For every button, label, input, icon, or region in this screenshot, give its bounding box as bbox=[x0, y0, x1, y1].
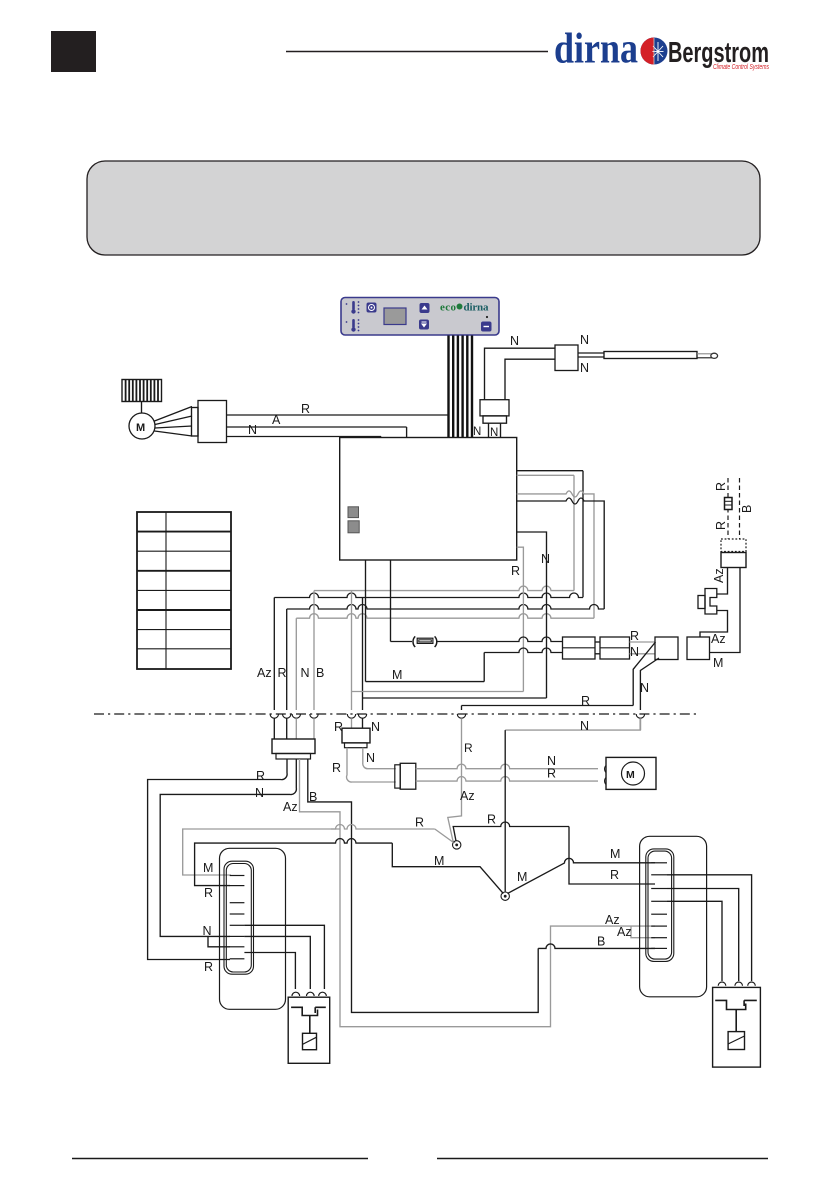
left terminal box outer bbox=[220, 848, 286, 1009]
motor connector X1 bbox=[192, 408, 199, 437]
wire R blower bbox=[227, 414, 449, 416]
svg-text:R: R bbox=[332, 761, 341, 775]
svg-text:B: B bbox=[309, 790, 317, 804]
probe tip bbox=[697, 353, 712, 355]
svg-text:R: R bbox=[630, 629, 639, 643]
harness row r2 bbox=[274, 593, 583, 597]
N wire below chassis (grey) bbox=[505, 718, 640, 730]
svg-text:R: R bbox=[547, 767, 556, 781]
header rule bbox=[286, 51, 548, 53]
svg-text:dirna: dirna bbox=[554, 26, 638, 73]
vertical R to connector bbox=[286, 609, 288, 710]
relay RL2 contacts symbol bbox=[715, 1000, 757, 1031]
CB output R (grey) bbox=[347, 748, 396, 782]
svg-text:B: B bbox=[597, 935, 605, 949]
harness row r3 bbox=[287, 605, 605, 610]
wire from pressure switch to junction bbox=[700, 611, 728, 638]
M wire from C2 to right box bbox=[508, 863, 565, 894]
right terminal box outer bbox=[640, 836, 707, 997]
relay RL1 contacts symbol bbox=[291, 1007, 326, 1033]
junction box J1 bbox=[655, 637, 678, 660]
footer rule left bbox=[72, 1158, 368, 1160]
svg-text:N: N bbox=[580, 361, 589, 375]
svg-text:Az: Az bbox=[712, 568, 726, 583]
RL2 terminal arcs bbox=[718, 982, 755, 986]
ECU output wire w4 with squiggle bbox=[517, 498, 605, 609]
ECU control unit box bbox=[340, 438, 517, 561]
svg-text:N: N bbox=[203, 924, 212, 938]
relay/connector solid box bbox=[721, 553, 746, 568]
wire M from solid box down to junction box bbox=[710, 568, 741, 653]
svg-text:N: N bbox=[580, 719, 589, 733]
thermostat connector pins bbox=[488, 423, 490, 437]
svg-text:R: R bbox=[415, 816, 424, 830]
wires to blower motor 2 (grey) bbox=[416, 764, 598, 769]
R wire to left below chassis bbox=[462, 705, 634, 707]
left box terminals bbox=[230, 876, 245, 959]
harness row r4 (grey) bbox=[296, 614, 594, 619]
B wire into right box with hump bbox=[538, 944, 655, 948]
svg-text:B: B bbox=[740, 505, 754, 513]
ECU grey pad 1 bbox=[348, 507, 359, 518]
relay K2 double box bbox=[600, 637, 630, 659]
ECU output wire w3 with squiggle bbox=[517, 491, 594, 618]
ECU output wire w2 bbox=[517, 474, 574, 476]
ECU output wire w1 bbox=[517, 470, 583, 472]
svg-text:Climate Control Systems: Climate Control Systems bbox=[713, 64, 769, 71]
vertical to C_B N bbox=[362, 598, 364, 711]
heater striped block bbox=[122, 380, 162, 402]
svg-text:N: N bbox=[541, 552, 550, 566]
logo globe icon bbox=[641, 38, 668, 66]
M wire to left box (grey) bbox=[183, 829, 340, 875]
svg-text:M: M bbox=[136, 422, 145, 434]
R/Az drop wire bbox=[448, 718, 462, 843]
thermostat connector bbox=[480, 400, 509, 416]
J1 output diagonals down bbox=[633, 642, 655, 706]
svg-text:M: M bbox=[517, 870, 527, 884]
junction box J2 bbox=[687, 637, 710, 660]
svg-text:M: M bbox=[713, 656, 723, 670]
fuse table bbox=[137, 512, 231, 669]
motor M1 blower bbox=[129, 413, 155, 439]
svg-text:Az: Az bbox=[257, 666, 272, 680]
svg-text:Az: Az bbox=[711, 632, 726, 646]
dashed supply wire R bbox=[727, 478, 729, 539]
wire heater to motor bbox=[141, 402, 143, 414]
relay feed vertical v523 (grey) bbox=[517, 547, 524, 691]
svg-text:R: R bbox=[334, 720, 343, 734]
svg-text:R: R bbox=[610, 868, 619, 882]
svg-text:B: B bbox=[316, 666, 324, 680]
switch contact C1 bbox=[453, 841, 461, 849]
Az2 stub bbox=[631, 926, 655, 938]
inline fuse F1 bbox=[725, 498, 733, 510]
M wire run bbox=[366, 681, 485, 683]
relay RL2 coil bbox=[728, 1032, 744, 1050]
svg-text:N: N bbox=[630, 645, 639, 659]
wire Az from box to pressure switch bbox=[717, 568, 728, 595]
K1-K2 links bbox=[595, 641, 600, 643]
dotted connector shell bbox=[721, 539, 746, 552]
svg-text:R: R bbox=[301, 402, 310, 416]
relay feed vertical v546 bbox=[517, 532, 547, 698]
svg-text:Az: Az bbox=[283, 800, 298, 814]
CA output N bbox=[160, 759, 296, 936]
svg-text:N: N bbox=[301, 666, 310, 680]
ecodirna control panel bbox=[341, 298, 499, 336]
vertical Az to connector bbox=[273, 598, 275, 711]
motor leads fan-out bbox=[155, 407, 193, 437]
ribbon cable bbox=[447, 336, 449, 438]
relay RL1 box bbox=[288, 997, 330, 1063]
probe leads bbox=[578, 352, 604, 354]
svg-text:N: N bbox=[473, 426, 481, 438]
svg-text:R: R bbox=[714, 482, 728, 491]
vertical B to connector (grey) bbox=[313, 591, 315, 710]
svg-text:R: R bbox=[204, 960, 213, 974]
svg-text:R: R bbox=[464, 741, 473, 755]
right terminal box inner bbox=[646, 849, 674, 962]
svg-text:eco: eco bbox=[440, 302, 457, 314]
motor M2 box bbox=[606, 757, 656, 789]
svg-text:R: R bbox=[204, 886, 213, 900]
relay K1 double box bbox=[563, 637, 596, 659]
footer rule right bbox=[437, 1158, 768, 1160]
R wire from C1 to right box bbox=[453, 827, 500, 842]
relay feed horizontal h691 (grey) bbox=[352, 691, 524, 693]
left box outputs to relay bbox=[244, 925, 324, 989]
svg-text:N: N bbox=[255, 786, 264, 800]
capillary probe bbox=[604, 352, 697, 359]
svg-text:A: A bbox=[272, 413, 281, 427]
harness row r1 (grey) bbox=[314, 586, 574, 591]
svg-text:N: N bbox=[510, 334, 519, 348]
vertical N to connector (grey) bbox=[295, 618, 297, 710]
thermostat feed wires N N bbox=[485, 348, 556, 400]
fuse wire humps bbox=[437, 637, 563, 642]
CA output Az (grey) bbox=[300, 759, 656, 1027]
grey rounded info box bbox=[87, 161, 760, 255]
ECU bottom wire to fuse bbox=[390, 560, 392, 642]
right box terminals bbox=[651, 863, 667, 949]
right box outputs to relay bbox=[667, 875, 752, 981]
svg-text:N: N bbox=[366, 751, 375, 765]
svg-text:R: R bbox=[256, 769, 265, 783]
svg-text:dirna: dirna bbox=[464, 302, 490, 314]
CA output B bbox=[308, 759, 538, 1012]
CA output R bbox=[148, 759, 288, 960]
svg-text:M: M bbox=[610, 847, 620, 861]
svg-text:M: M bbox=[203, 861, 213, 875]
dashed supply wire B bbox=[739, 478, 741, 539]
connector CB body bbox=[342, 728, 370, 743]
N wire inner jog bbox=[208, 936, 230, 946]
svg-text:N: N bbox=[371, 720, 380, 734]
K2 to J1 wires R N bbox=[630, 641, 656, 643]
R wire to left box bbox=[195, 843, 330, 886]
svg-text:Az: Az bbox=[460, 789, 475, 803]
fuse F2 inline bbox=[391, 641, 413, 643]
chassis dash-dot line bbox=[94, 713, 696, 715]
vertical to C_B R (grey) bbox=[351, 591, 353, 710]
wire A blower bbox=[227, 426, 407, 428]
svg-text:N: N bbox=[248, 423, 257, 437]
relay RL1 coil bbox=[303, 1033, 317, 1049]
ECU bottom wire M bbox=[365, 560, 367, 682]
svg-text:N: N bbox=[580, 333, 589, 347]
svg-text:Az: Az bbox=[617, 925, 632, 939]
pressure switch bbox=[705, 589, 717, 615]
thermostat body bbox=[555, 345, 578, 371]
relay RL2 box bbox=[713, 987, 761, 1067]
relay feed horizontal h698 bbox=[363, 697, 547, 699]
svg-text:R: R bbox=[278, 666, 287, 680]
svg-text:N: N bbox=[640, 681, 649, 695]
svg-text:M: M bbox=[626, 769, 635, 781]
resistor component bbox=[395, 765, 400, 788]
RL1 terminal arcs bbox=[292, 992, 326, 996]
ECU grey pad 2 bbox=[348, 521, 359, 533]
switch contact C2 bbox=[501, 892, 509, 900]
left terminal box inner bbox=[224, 861, 254, 974]
CB output N (grey) bbox=[363, 748, 396, 769]
svg-text:R: R bbox=[714, 521, 728, 530]
black corner square bbox=[51, 31, 96, 72]
connector CA body bbox=[272, 739, 315, 754]
svg-text:M: M bbox=[392, 668, 402, 682]
wire N blower bbox=[227, 436, 382, 438]
svg-text:M: M bbox=[434, 854, 444, 868]
svg-text:R: R bbox=[487, 813, 496, 827]
svg-text:R: R bbox=[511, 564, 520, 578]
